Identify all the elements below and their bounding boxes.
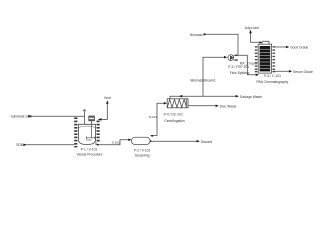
- svg-text:Substrate SFB: Substrate SFB: [11, 115, 33, 119]
- svg-text:Vent: Vent: [104, 96, 111, 100]
- svg-text:S-102: S-102: [112, 140, 121, 144]
- svg-text:Serum Grade: Serum Grade: [293, 70, 313, 74]
- svg-text:Discard: Discard: [201, 140, 212, 144]
- svg-text:P-4 / DC-101: P-4 / DC-101: [164, 113, 183, 117]
- svg-text:S-103: S-103: [149, 115, 158, 119]
- svg-text:Flow Splitting: Flow Splitting: [230, 71, 250, 75]
- svg-text:Good Grade: Good Grade: [290, 46, 308, 50]
- svg-text:Biomass: Biomass: [190, 33, 203, 37]
- svg-text:P-1 / V-101: P-1 / V-101: [81, 147, 98, 151]
- svg-text:SDB: SDB: [16, 143, 24, 147]
- svg-text:Adjuvant: Adjuvant: [245, 26, 260, 30]
- svg-text:Vessel Procedure: Vessel Procedure: [77, 152, 103, 156]
- svg-text:Decanting: Decanting: [135, 153, 150, 157]
- svg-text:P-6 / C-101: P-6 / C-101: [264, 74, 281, 78]
- svg-text:BiomassStream1: BiomassStream1: [190, 79, 215, 83]
- svg-text:MX_2 Input: MX_2 Input: [240, 62, 257, 66]
- svg-text:Disc Waste: Disc Waste: [220, 104, 237, 108]
- svg-text:Salvage Waste: Salvage Waste: [240, 95, 262, 99]
- svg-text:PBA Chromatography: PBA Chromatography: [256, 80, 288, 84]
- svg-text:P-2 / V-102: P-2 / V-102: [134, 149, 151, 153]
- svg-text:Centrifugation: Centrifugation: [164, 119, 185, 123]
